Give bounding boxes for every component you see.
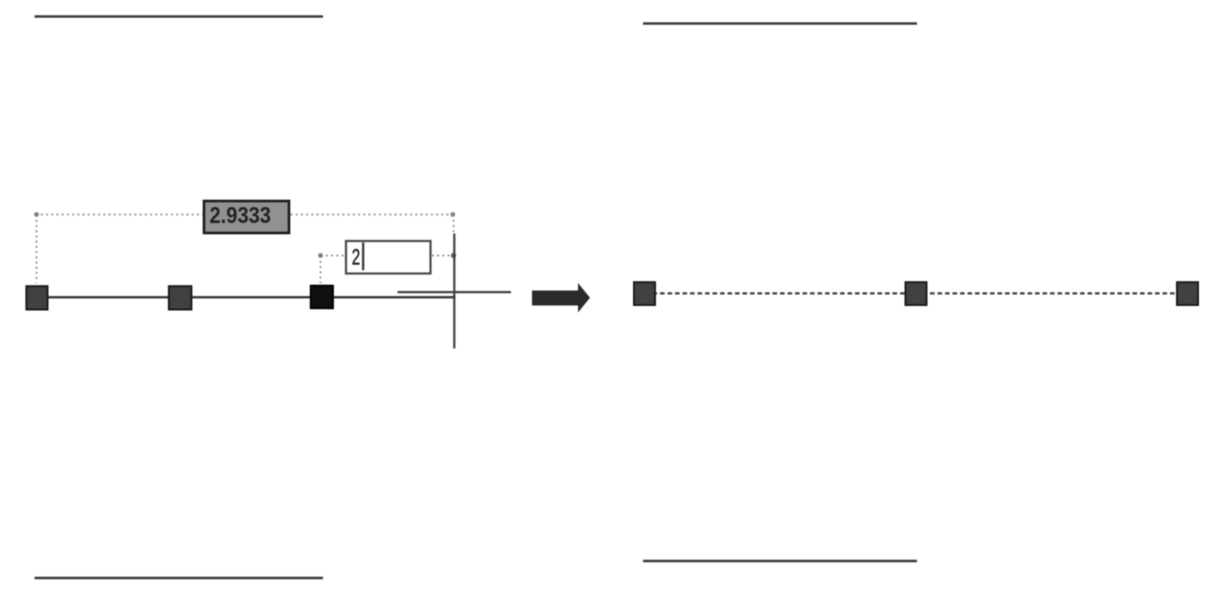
svg-text:2.9333: 2.9333 bbox=[210, 202, 272, 228]
svg-text:2: 2 bbox=[352, 244, 360, 269]
